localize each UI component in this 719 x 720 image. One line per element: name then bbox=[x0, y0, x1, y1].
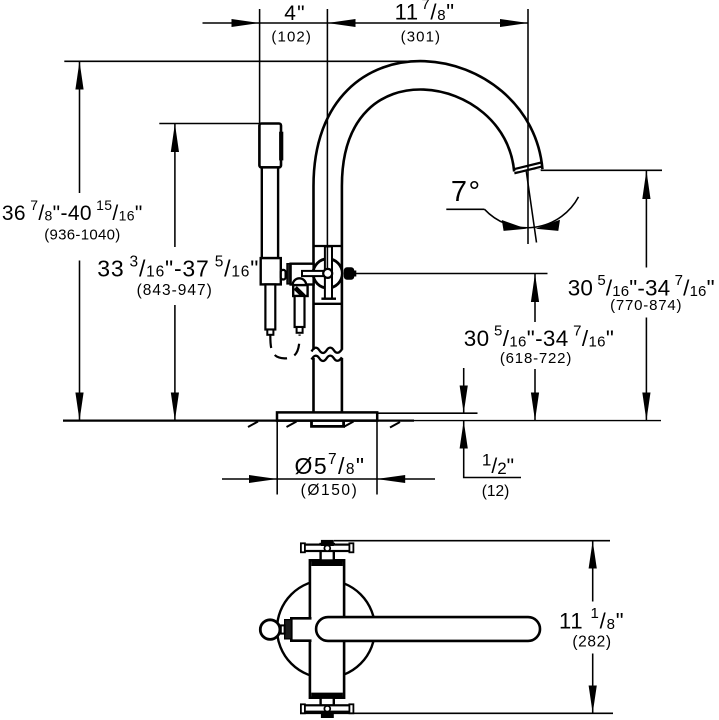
cross handle horizontal bar bbox=[302, 271, 328, 276]
plan dim arrows bbox=[589, 541, 597, 714]
extension line 4" left bbox=[259, 9, 261, 124]
svg-text:(770-874): (770-874) bbox=[610, 297, 682, 314]
spout tube interior bbox=[328, 75, 529, 414]
top hub circle bbox=[324, 545, 330, 551]
dim2 arrows bbox=[171, 124, 179, 153]
head thick right edge bbox=[279, 132, 283, 161]
svg-text:(282): (282) bbox=[572, 633, 611, 650]
bottom bar end caps bbox=[301, 704, 305, 713]
4" outside-left arrow bbox=[232, 19, 260, 27]
7 deg leader bbox=[446, 208, 484, 210]
dia extension lines bbox=[276, 413, 278, 494]
extension / center line riser bbox=[326, 9, 328, 270]
bottom hub block bbox=[321, 712, 334, 718]
top valve stem (plan) bbox=[321, 544, 334, 561]
plan dim line bbox=[592, 541, 594, 714]
floor inlet below plate bbox=[312, 421, 344, 427]
right hose tube bbox=[295, 296, 305, 327]
spout tip aerator band bbox=[514, 163, 542, 174]
plan bottom reference bbox=[300, 712, 613, 714]
top reference line (spout top) bbox=[64, 60, 424, 62]
7 deg slanted line bbox=[526, 172, 536, 243]
left hose tube bbox=[265, 284, 275, 329]
floor hatch ticks bbox=[248, 422, 400, 428]
head-top reference line bbox=[159, 123, 259, 125]
pipe break wavy lines bbox=[312, 348, 342, 353]
floor line thick bbox=[63, 420, 414, 422]
shower neck (plan) bbox=[281, 625, 285, 633]
body (plan) bbox=[310, 560, 344, 697]
body flange top bbox=[311, 560, 343, 566]
7 deg angle arc bbox=[485, 197, 579, 228]
valve circle bbox=[313, 259, 342, 288]
elbow diagonal stripe bbox=[295, 288, 304, 296]
valve lower pipe line bbox=[314, 303, 342, 305]
svg-text:(Ø150): (Ø150) bbox=[301, 482, 359, 499]
dim line 618-722 bbox=[534, 274, 536, 421]
svg-text:(301): (301) bbox=[401, 28, 442, 45]
dim 770-874 arrows bbox=[642, 170, 650, 199]
dim line 36 7/8 bbox=[79, 61, 81, 420]
plan top reference bbox=[334, 540, 610, 542]
half inch dim lines bbox=[464, 368, 521, 478]
dark connector bar bbox=[287, 264, 291, 284]
dim line 33 3/16 bbox=[174, 124, 176, 421]
spout tube outline (stroked centerline) bbox=[328, 75, 529, 412]
11 7/8 left arrow bbox=[327, 19, 355, 27]
top hub block bbox=[321, 540, 334, 546]
svg-text:(12): (12) bbox=[482, 483, 510, 500]
valve bonnet line bbox=[314, 245, 342, 247]
shower dark bar (plan) bbox=[285, 620, 292, 639]
svg-text:(618-722): (618-722) bbox=[500, 350, 572, 367]
knob reference line bbox=[355, 273, 548, 275]
outlet reference line bbox=[541, 169, 662, 171]
11 7/8 right arrow bbox=[500, 19, 528, 27]
right knob bbox=[344, 268, 353, 279]
bottom cross bar (plan) bbox=[302, 705, 352, 711]
cross handle vertical bar bbox=[325, 247, 332, 299]
dim line 770-874 bbox=[645, 170, 647, 420]
shower head circle (plan) bbox=[260, 620, 280, 640]
elbow dome bbox=[293, 278, 307, 285]
floor line thin bbox=[414, 420, 661, 422]
dia dim line bbox=[222, 478, 435, 480]
spout (plan) bbox=[316, 617, 540, 641]
dim 618-722 arrows bbox=[531, 274, 539, 303]
plan dim lines bbox=[300, 541, 613, 714]
svg-text:(936-1040): (936-1040) bbox=[44, 226, 120, 243]
plate-top reference extension bbox=[378, 412, 478, 414]
body flange bottom bbox=[311, 693, 343, 699]
hand shower head bbox=[259, 124, 281, 168]
elbow box bbox=[293, 285, 307, 296]
base circle bbox=[277, 580, 375, 678]
dashed hose loop bbox=[270, 335, 299, 359]
svg-text:(843-947): (843-947) bbox=[137, 282, 213, 299]
top bar end caps bbox=[301, 543, 305, 552]
top dim line bbox=[203, 22, 529, 24]
cross handle hub bbox=[323, 269, 332, 278]
hand shower handle bbox=[262, 167, 278, 258]
base plate bbox=[277, 412, 377, 420]
svg-text:(102): (102) bbox=[271, 28, 312, 45]
arrowheads front bbox=[75, 19, 650, 483]
shower holder block bbox=[261, 258, 281, 284]
valve lower cap band bbox=[321, 298, 336, 300]
pipe break white gap bbox=[310, 350, 345, 358]
holder pin bbox=[281, 270, 286, 280]
svg-text:7°: 7° bbox=[451, 176, 482, 208]
svg-text:4": 4" bbox=[284, 2, 306, 25]
7 deg arc arrowheads bbox=[502, 220, 527, 231]
top cross bar (plan) bbox=[302, 545, 352, 551]
bottom hub circle bbox=[324, 706, 330, 712]
arm to valve bbox=[291, 264, 314, 285]
dia arrows bbox=[249, 475, 277, 483]
half inch arrows bbox=[460, 386, 468, 414]
bottom valve stem (plan) bbox=[321, 698, 334, 706]
extension line spout outlet bbox=[527, 9, 529, 244]
shower bracket open box bbox=[291, 618, 311, 640]
dim1 arrows bbox=[75, 61, 83, 89]
